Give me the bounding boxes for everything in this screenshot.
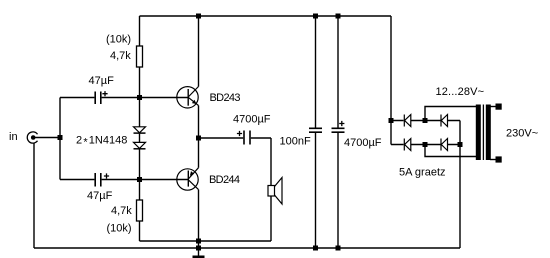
speaker LS1 box bbox=[268, 186, 275, 197]
svg-text:47µF: 47µF bbox=[89, 75, 115, 87]
wire speaker bottom bbox=[270, 196, 272, 241]
node C5 rail junction bbox=[336, 14, 341, 19]
transformer T1 primary pad bottom bbox=[496, 156, 502, 162]
input jack J1 center pin bbox=[31, 135, 36, 140]
wire Q1 collector vertical bbox=[198, 16, 200, 87]
svg-text:2*1N4148: 2*1N4148 bbox=[76, 135, 127, 149]
speaker LS1 cone bbox=[275, 178, 283, 205]
svg-text:47µF: 47µF bbox=[87, 190, 113, 202]
wire C4 100nF column bbox=[315, 16, 317, 248]
node input junction bbox=[58, 135, 63, 140]
svg-text:4700µF: 4700µF bbox=[233, 114, 271, 126]
transistor Q1 emitter diagonal bbox=[188, 97, 198, 105]
capacitor C3 plus sign bbox=[237, 131, 242, 136]
node bridge AC top junction bbox=[423, 118, 428, 123]
svg-text:4,7k: 4,7k bbox=[111, 205, 132, 217]
transistor Q2 emitter arrow bbox=[190, 171, 194, 176]
bridge diode D4 top-right bbox=[441, 115, 448, 127]
wire input row bottom y=179.5 bbox=[60, 179, 188, 181]
bridge diode D6 bottom-right bbox=[441, 139, 448, 151]
node bridge right junction bbox=[458, 142, 463, 147]
wire R1 to node B1 and to diodes bbox=[139, 67, 141, 127]
wire primary stub top bbox=[490, 106, 496, 108]
svg-text:4,7k: 4,7k bbox=[110, 50, 131, 62]
transistor Q2 emitter diagonal bbox=[188, 168, 198, 179]
wire Q1 emitter to Q2 emitter vertical bbox=[198, 106, 200, 168]
node output junction bbox=[196, 136, 201, 141]
transistor Q1 base bar bbox=[187, 89, 189, 106]
wire mid rail y=241 bbox=[140, 240, 272, 242]
node C5 ground junction bbox=[336, 246, 341, 251]
wire output node to C3 bbox=[199, 137, 244, 139]
wire jack to node bbox=[33, 137, 60, 139]
transistor Q2 base bar bbox=[187, 171, 189, 187]
wire C3 to speaker corner bbox=[251, 138, 271, 186]
node mid rail junction bbox=[196, 239, 201, 244]
node junction dots bbox=[58, 14, 463, 251]
capacitor C4 100nF plates bbox=[309, 128, 322, 132]
wire ground stub bbox=[198, 241, 200, 256]
svg-text:(10k): (10k) bbox=[107, 223, 132, 235]
wire primary stub bottom bbox=[490, 159, 496, 161]
diode D2 1N4148 bbox=[134, 142, 146, 148]
node collector rail junction bbox=[196, 14, 201, 19]
transformer T1 core line bbox=[482, 105, 484, 161]
wire D2 to node B2 to R2 bbox=[139, 149, 141, 200]
capacitor C5 plus sign bbox=[339, 121, 344, 126]
transformer T1 secondary winding bar bbox=[476, 105, 481, 161]
diode D1 1N4148 bbox=[134, 127, 146, 133]
wire rail down to bridge x=391 bbox=[390, 16, 392, 145]
capacitor C2 47uF bottom plates bbox=[95, 173, 101, 187]
node C4 ground junction bbox=[313, 246, 318, 251]
capacitor C3 4700uF output plates bbox=[244, 131, 250, 145]
resistor R2 4,7k (10k) bottom bbox=[137, 200, 143, 221]
wire bridge top row bbox=[391, 120, 460, 122]
transistor Q1 collector diagonal bbox=[188, 87, 198, 98]
capacitor C1 plus sign bbox=[102, 91, 107, 96]
wire left column vertical (rail to R1) bbox=[139, 16, 141, 46]
svg-text:12...28V~: 12...28V~ bbox=[436, 86, 485, 98]
node bridge AC bottom junction bbox=[423, 142, 428, 147]
wire AC top from transformer bbox=[425, 107, 477, 121]
input jack J1 outer ring bbox=[27, 132, 37, 143]
wire bridge bottom row bbox=[391, 144, 460, 146]
svg-text:BD243: BD243 bbox=[210, 92, 241, 104]
wire bottom ground rail bbox=[34, 247, 460, 249]
transformer T1 primary winding bar bbox=[486, 105, 491, 161]
node ground rail junction bbox=[196, 246, 201, 251]
bridge diode D3 top-left bbox=[404, 115, 411, 127]
transistor Q2 collector diagonal bbox=[188, 180, 198, 190]
transformer T1 primary pad top bbox=[496, 104, 502, 110]
ground symbol bbox=[193, 256, 205, 258]
bridge diode D5 bottom-left bbox=[404, 139, 411, 151]
wire input row top y=97.5 bbox=[60, 97, 188, 99]
wire top positive rail bbox=[140, 15, 392, 17]
svg-text:in: in bbox=[9, 131, 18, 143]
svg-text:4700µF: 4700µF bbox=[344, 137, 382, 149]
svg-text:BD244: BD244 bbox=[209, 174, 240, 186]
capacitor C1 47uF top plates bbox=[95, 92, 101, 105]
svg-text:100nF: 100nF bbox=[280, 136, 311, 148]
capacitor C2 plus sign bbox=[104, 173, 109, 178]
svg-text:230V~: 230V~ bbox=[506, 127, 538, 139]
wire R2 down to mid rail bbox=[139, 221, 141, 241]
wire jack stub down bbox=[33, 143, 35, 248]
node B2 base of Q2 bbox=[137, 177, 142, 182]
wire left vertical x=60 bbox=[59, 98, 61, 180]
resistor R1 4,7k (10k) top bbox=[137, 46, 143, 67]
node C4 rail junction bbox=[313, 14, 318, 19]
wire between diodes D1 D2 bbox=[139, 134, 141, 143]
wire C5 4700uF column bbox=[337, 16, 339, 248]
wire Q2 collector down bbox=[198, 190, 200, 241]
wire bridge right side down bbox=[459, 121, 461, 249]
node B1 base of Q1 bbox=[137, 95, 142, 100]
transistor Q1 emitter arrow bbox=[192, 100, 197, 104]
svg-text:(10k): (10k) bbox=[106, 34, 131, 46]
transistor Q1 BD243 circle bbox=[177, 87, 198, 108]
wire AC bottom from transformer bbox=[425, 145, 477, 157]
node bridge left junction bbox=[389, 118, 394, 123]
svg-text:5A graetz: 5A graetz bbox=[399, 167, 446, 179]
transistor Q2 BD244 circle bbox=[177, 169, 198, 190]
capacitor C5 4700uF reservoir plates bbox=[332, 128, 345, 132]
